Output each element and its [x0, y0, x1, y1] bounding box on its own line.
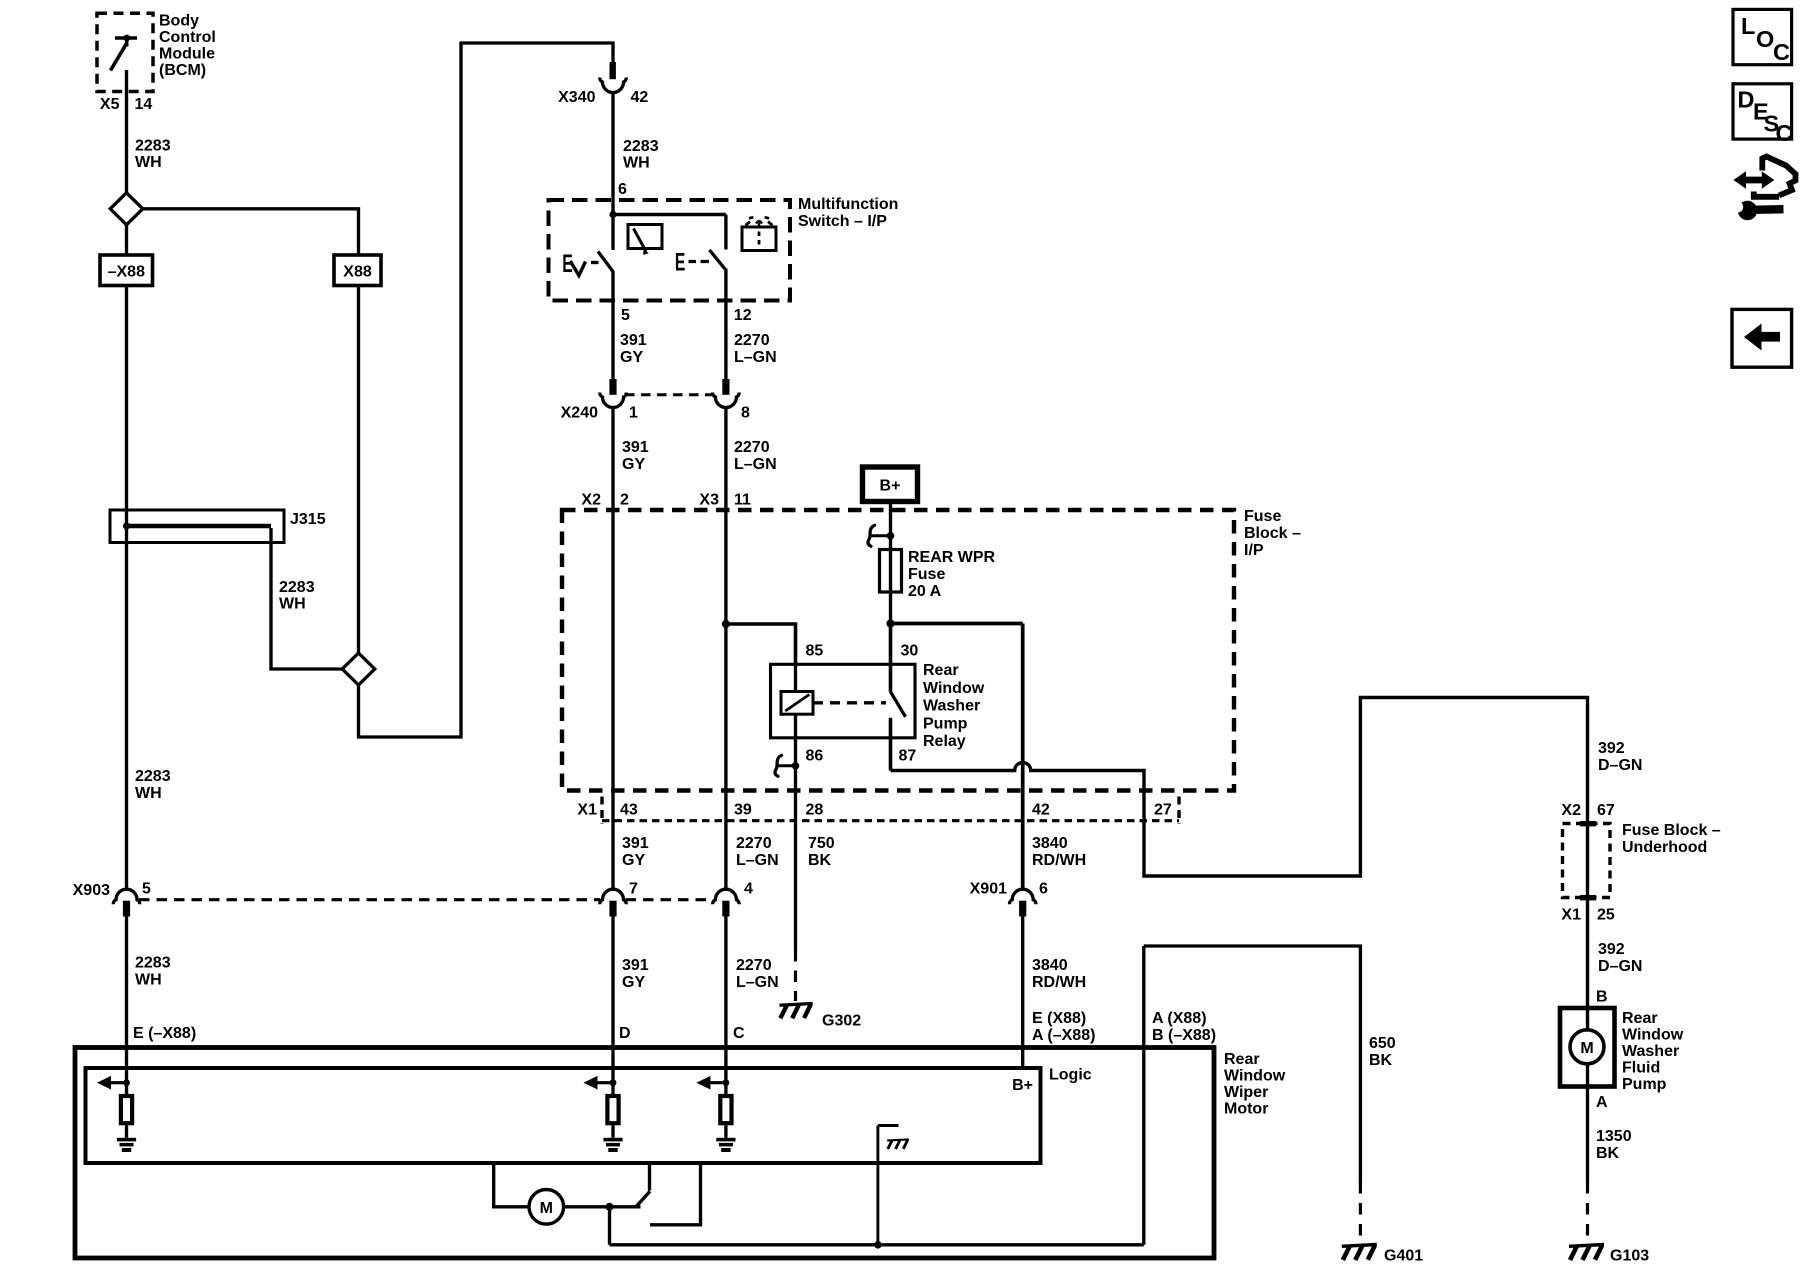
svg-text:WH: WH: [623, 155, 650, 172]
svg-text:–X88: –X88: [108, 264, 145, 281]
svg-text:X240: X240: [561, 405, 598, 422]
svg-text:Logic: Logic: [1049, 1067, 1092, 1084]
svg-text:Fuse Block –: Fuse Block –: [1622, 822, 1721, 839]
svg-text:Washer: Washer: [923, 698, 980, 715]
svg-text:Fuse: Fuse: [1244, 508, 1281, 525]
svg-text:E (–X88): E (–X88): [133, 1025, 196, 1042]
svg-text:6: 6: [1039, 881, 1048, 898]
svg-text:Body: Body: [159, 13, 199, 30]
svg-text:BK: BK: [808, 852, 832, 869]
svg-text:67: 67: [1597, 802, 1615, 819]
svg-text:Motor: Motor: [1224, 1101, 1268, 1118]
svg-text:4: 4: [744, 881, 753, 898]
svg-text:M: M: [1580, 1040, 1593, 1057]
svg-text:2283: 2283: [279, 579, 315, 596]
svg-text:391: 391: [622, 835, 649, 852]
svg-text:BK: BK: [1596, 1145, 1620, 1162]
svg-text:C: C: [1773, 39, 1790, 65]
svg-text:20 A: 20 A: [908, 583, 942, 600]
svg-text:X5: X5: [100, 96, 120, 113]
svg-text:I/P: I/P: [1244, 542, 1264, 559]
svg-text:5: 5: [142, 881, 151, 898]
svg-text:X903: X903: [73, 882, 110, 899]
svg-text:2270: 2270: [736, 835, 772, 852]
svg-text:A: A: [1596, 1094, 1608, 1111]
svg-text:1: 1: [629, 405, 638, 422]
svg-text:392: 392: [1598, 740, 1625, 757]
svg-text:X2: X2: [1561, 802, 1581, 819]
svg-text:3840: 3840: [1032, 835, 1068, 852]
svg-text:O: O: [1756, 26, 1774, 52]
svg-text:A (X88): A (X88): [1152, 1010, 1207, 1027]
svg-text:2283: 2283: [135, 138, 171, 155]
svg-text:Rear: Rear: [1224, 1051, 1260, 1068]
svg-text:Window: Window: [923, 680, 985, 697]
svg-text:Fluid: Fluid: [1622, 1060, 1660, 1077]
svg-text:Rear: Rear: [1622, 1010, 1658, 1027]
svg-text:X901: X901: [970, 881, 1007, 898]
svg-text:Block –: Block –: [1244, 525, 1301, 542]
svg-text:391: 391: [622, 957, 649, 974]
svg-text:J315: J315: [290, 511, 326, 528]
svg-text:2283: 2283: [623, 138, 659, 155]
svg-text:750: 750: [808, 835, 835, 852]
svg-text:C: C: [1776, 120, 1793, 146]
svg-text:L–GN: L–GN: [736, 852, 779, 869]
svg-text:D–GN: D–GN: [1598, 958, 1642, 975]
svg-text:650: 650: [1369, 1035, 1396, 1052]
svg-text:2283: 2283: [135, 955, 171, 972]
svg-text:392: 392: [1598, 941, 1625, 958]
svg-text:WH: WH: [135, 785, 162, 802]
svg-text:WH: WH: [135, 154, 162, 171]
svg-text:Underhood: Underhood: [1622, 839, 1707, 856]
svg-text:GY: GY: [622, 974, 645, 991]
svg-text:E: E: [675, 249, 686, 277]
svg-text:2: 2: [620, 492, 629, 509]
svg-text:3840: 3840: [1032, 957, 1068, 974]
svg-text:X1: X1: [1561, 907, 1581, 924]
svg-text:C: C: [733, 1025, 745, 1042]
svg-text:42: 42: [631, 89, 649, 106]
svg-text:Fuse: Fuse: [908, 566, 945, 583]
svg-text:25: 25: [1597, 907, 1615, 924]
svg-text:D: D: [1738, 87, 1755, 113]
svg-text:39: 39: [734, 802, 752, 819]
svg-text:27: 27: [1154, 802, 1172, 819]
svg-text:X3: X3: [699, 492, 719, 509]
svg-text:X1: X1: [577, 802, 597, 819]
svg-text:L–GN: L–GN: [736, 974, 779, 991]
svg-text:X340: X340: [558, 89, 595, 106]
svg-text:Control: Control: [159, 29, 216, 46]
svg-text:G302: G302: [822, 1013, 861, 1030]
svg-text:G401: G401: [1384, 1248, 1423, 1265]
svg-text:7: 7: [629, 881, 638, 898]
svg-text:14: 14: [135, 96, 153, 113]
svg-text:86: 86: [806, 748, 824, 765]
svg-text:GY: GY: [622, 456, 645, 473]
svg-text:Rear: Rear: [923, 662, 959, 679]
svg-text:B (–X88): B (–X88): [1152, 1027, 1216, 1044]
svg-text:M: M: [540, 1200, 553, 1217]
svg-text:2270: 2270: [734, 439, 770, 456]
svg-text:30: 30: [901, 643, 919, 660]
svg-text:REAR WPR: REAR WPR: [908, 549, 996, 566]
svg-text:B+: B+: [880, 478, 901, 495]
svg-text:A (–X88): A (–X88): [1032, 1027, 1095, 1044]
svg-text:87: 87: [899, 748, 917, 765]
svg-text:391: 391: [620, 332, 647, 349]
svg-text:L–GN: L–GN: [734, 456, 777, 473]
svg-text:(BCM): (BCM): [159, 62, 206, 79]
svg-text:GY: GY: [620, 349, 643, 366]
svg-text:WH: WH: [279, 596, 306, 613]
svg-text:B+: B+: [1012, 1077, 1033, 1094]
svg-text:Pump: Pump: [1622, 1076, 1667, 1093]
svg-text:2283: 2283: [135, 768, 171, 785]
svg-text:RD/WH: RD/WH: [1032, 852, 1086, 869]
svg-text:28: 28: [806, 802, 824, 819]
svg-text:BK: BK: [1369, 1052, 1393, 1069]
svg-text:Wiper: Wiper: [1224, 1084, 1268, 1101]
svg-text:X2: X2: [581, 492, 601, 509]
svg-text:43: 43: [620, 802, 638, 819]
svg-text:11: 11: [734, 492, 751, 509]
svg-text:D: D: [619, 1025, 631, 1042]
svg-text:391: 391: [622, 439, 649, 456]
svg-text:Module: Module: [159, 46, 215, 63]
svg-text:Relay: Relay: [923, 733, 966, 750]
svg-text:G103: G103: [1610, 1248, 1649, 1265]
svg-text:B: B: [1596, 989, 1608, 1006]
svg-text:8: 8: [741, 405, 750, 422]
svg-text:Pump: Pump: [923, 715, 968, 732]
svg-text:Switch – I/P: Switch – I/P: [798, 213, 887, 230]
svg-text:Multifunction: Multifunction: [798, 196, 898, 213]
svg-text:1350: 1350: [1596, 1128, 1632, 1145]
svg-text:WH: WH: [135, 972, 162, 989]
svg-text:X88: X88: [343, 264, 372, 281]
svg-text:Window: Window: [1622, 1027, 1684, 1044]
svg-text:6: 6: [618, 181, 627, 198]
svg-text:42: 42: [1032, 802, 1050, 819]
svg-text:L–GN: L–GN: [734, 349, 777, 366]
svg-text:Window: Window: [1224, 1068, 1286, 1085]
svg-text:Washer: Washer: [1622, 1043, 1679, 1060]
svg-text:D–GN: D–GN: [1598, 757, 1642, 774]
svg-text:L: L: [1741, 13, 1755, 39]
svg-text:5: 5: [621, 307, 630, 324]
svg-text:85: 85: [806, 643, 824, 660]
svg-text:RD/WH: RD/WH: [1032, 974, 1086, 991]
svg-text:2270: 2270: [736, 957, 772, 974]
svg-text:12: 12: [734, 307, 752, 324]
svg-text:2270: 2270: [734, 332, 770, 349]
svg-text:GY: GY: [622, 852, 645, 869]
svg-text:E (X88): E (X88): [1032, 1010, 1086, 1027]
